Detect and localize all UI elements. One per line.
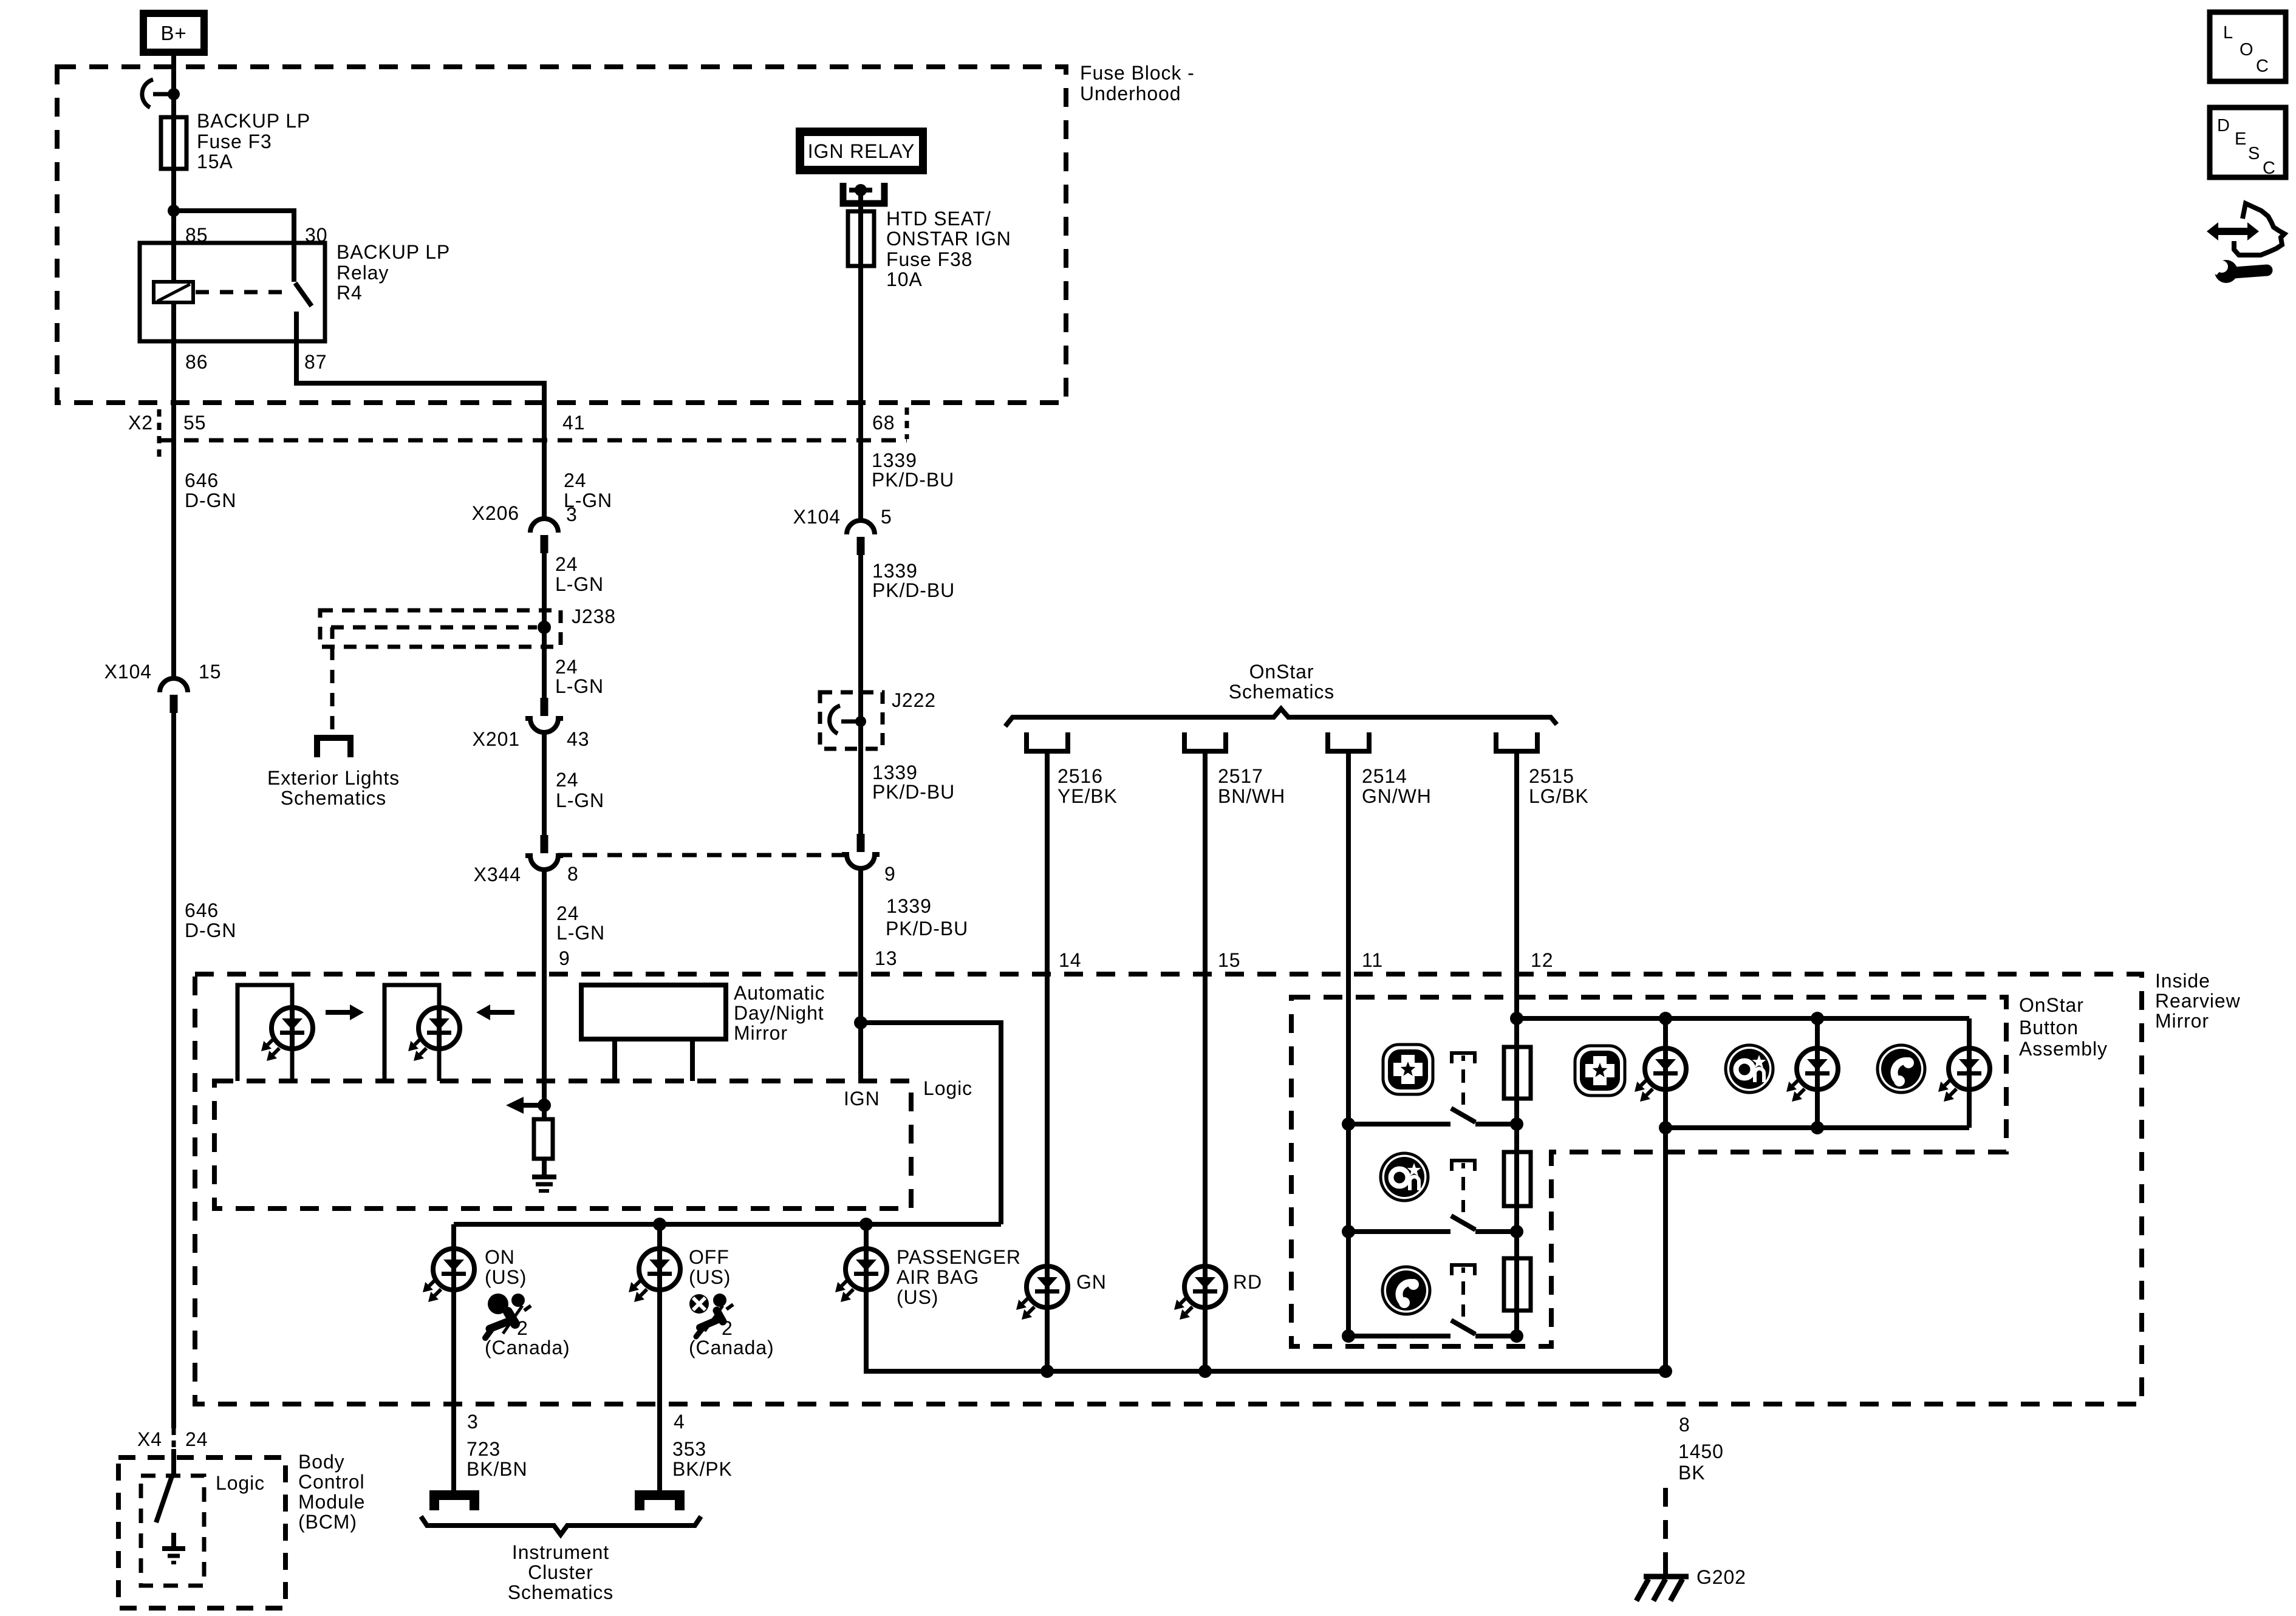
svg-text:GN/WH: GN/WH bbox=[1362, 785, 1432, 807]
wire 13 to IGN junction bbox=[858, 974, 863, 1023]
LED row indicator 3 bbox=[1967, 1018, 1972, 1128]
wire fuse F3 to relay coil 85 bbox=[171, 169, 176, 282]
node dot OFF branch bbox=[653, 1218, 666, 1231]
svg-text:X201: X201 bbox=[473, 728, 520, 750]
svg-text:2: 2 bbox=[517, 1317, 528, 1339]
connector cup cluster 3 bbox=[434, 1495, 474, 1510]
relay socket cup under IGN RELAY bbox=[843, 183, 884, 203]
svg-text:2517: 2517 bbox=[1218, 765, 1263, 787]
svg-text:BK/PK: BK/PK bbox=[672, 1458, 733, 1480]
svg-text:24: 24 bbox=[555, 553, 578, 575]
svg-text:10A: 10A bbox=[886, 268, 923, 290]
wire 2514 GN/WH bbox=[1346, 754, 1351, 1336]
svg-text:L-GN: L-GN bbox=[556, 922, 605, 944]
node dot wire12 top rail bbox=[1510, 1012, 1523, 1025]
connector X206 pin 3 bbox=[530, 519, 558, 533]
svg-text:Schematics: Schematics bbox=[508, 1581, 613, 1603]
svg-text:Automatic: Automatic bbox=[734, 982, 825, 1004]
wire ON LED to cluster pin 3 bbox=[451, 1290, 456, 1493]
connector cup 2516 bbox=[1027, 732, 1068, 751]
power symbol B+ bbox=[140, 10, 208, 56]
LED supply rail bbox=[454, 1222, 1001, 1227]
svg-text:2515: 2515 bbox=[1529, 765, 1574, 787]
ground in logic bbox=[532, 1174, 556, 1179]
button phone in row bbox=[1877, 1045, 1925, 1093]
ground BCM bbox=[162, 1546, 185, 1551]
wire pin 86 down to X2-55 bbox=[171, 341, 176, 678]
dashed box Inside Rearview Mirror bbox=[195, 974, 2142, 1404]
svg-text:15: 15 bbox=[1218, 949, 1240, 971]
LED row indicator 2 bbox=[1815, 1018, 1820, 1128]
day/night mirror legs bbox=[612, 1039, 617, 1081]
svg-text:YE/BK: YE/BK bbox=[1057, 785, 1118, 807]
wire switch row3 bbox=[1348, 1334, 1450, 1338]
svg-text:30: 30 bbox=[305, 224, 327, 246]
node dot bus row2 bbox=[1342, 1225, 1355, 1238]
svg-text:8: 8 bbox=[567, 863, 579, 885]
svg-text:HTD SEAT/: HTD SEAT/ bbox=[886, 208, 991, 230]
resistor R3 wire12 bbox=[1504, 1258, 1531, 1311]
svg-text:Underhood: Underhood bbox=[1080, 83, 1181, 104]
resistor in logic bbox=[542, 1105, 547, 1119]
svg-text:41: 41 bbox=[562, 412, 585, 434]
resistor R2 wire12 bbox=[1504, 1152, 1531, 1206]
switch blade BCM bbox=[156, 1475, 173, 1522]
wire 2515 LG/BK bbox=[1514, 754, 1519, 1336]
svg-text:15A: 15A bbox=[197, 151, 233, 172]
node dot rail LED1 bottom bbox=[1659, 1121, 1672, 1134]
airbag icon OFF Canada crossed bbox=[689, 1294, 709, 1314]
dashed box Body Control Module bbox=[118, 1457, 285, 1608]
LED PASSENGER AIR BAG indicator bbox=[864, 1224, 869, 1249]
svg-text:Assembly: Assembly bbox=[2019, 1038, 2108, 1060]
svg-text:24: 24 bbox=[564, 469, 586, 491]
svg-text:Mirror: Mirror bbox=[2155, 1010, 2209, 1032]
svg-text:X2: X2 bbox=[128, 412, 153, 434]
LED row indicator 1 bbox=[1663, 1018, 1668, 1128]
ground stub BCM bbox=[171, 1533, 176, 1549]
svg-text:Fuse Block -: Fuse Block - bbox=[1080, 62, 1195, 84]
svg-text:BK/BN: BK/BN bbox=[466, 1458, 528, 1480]
brace OnStar Schematics bbox=[1005, 709, 1557, 726]
svg-text:RD: RD bbox=[1233, 1271, 1262, 1293]
node dot GN join bbox=[1040, 1365, 1054, 1378]
svg-text:L-GN: L-GN bbox=[555, 675, 604, 697]
connector row X344 dashed link bbox=[558, 853, 847, 857]
resistor R1 wire12 bbox=[1504, 1047, 1531, 1099]
svg-text:D-GN: D-GN bbox=[185, 919, 236, 941]
svg-text:646: 646 bbox=[185, 899, 219, 921]
wire 1339 into mirror pin 13 bbox=[858, 870, 863, 1081]
svg-text:Schematics: Schematics bbox=[281, 787, 386, 809]
svg-text:8: 8 bbox=[1679, 1414, 1690, 1436]
LED bottom rail bbox=[1666, 1125, 1969, 1130]
wire pin 87 to X2-41 bbox=[296, 341, 544, 520]
wire IGN relay to fuse F38 bbox=[858, 193, 863, 211]
exterior lights connector bracket bbox=[317, 738, 350, 757]
svg-text:Inside: Inside bbox=[2155, 970, 2210, 992]
svg-text:55: 55 bbox=[183, 412, 206, 434]
svg-text:Cluster: Cluster bbox=[528, 1561, 593, 1583]
svg-text:Mirror: Mirror bbox=[734, 1022, 788, 1044]
svg-text:ON: ON bbox=[485, 1246, 515, 1268]
svg-text:Day/Night: Day/Night bbox=[734, 1002, 824, 1024]
node dot at fusible link bbox=[168, 88, 180, 100]
connector cup 2517 bbox=[1184, 732, 1226, 751]
connector X344 pin 9 bbox=[857, 834, 865, 852]
svg-text:2514: 2514 bbox=[1362, 765, 1407, 787]
svg-text:13: 13 bbox=[875, 947, 897, 969]
svg-text:IGN: IGN bbox=[844, 1088, 880, 1110]
svg-text:1339: 1339 bbox=[872, 449, 917, 471]
svg-text:Rearview: Rearview bbox=[2155, 990, 2241, 1012]
wire switch row1 bbox=[1348, 1122, 1450, 1127]
svg-text:D-GN: D-GN bbox=[185, 489, 236, 511]
svg-text:R4: R4 bbox=[337, 282, 363, 304]
wire RD LED to rail bbox=[1203, 1307, 1208, 1371]
node dot IGN branch bbox=[854, 1016, 867, 1029]
svg-text:87: 87 bbox=[304, 351, 327, 373]
svg-text:1339: 1339 bbox=[886, 895, 932, 917]
wire coil to pin 86 bbox=[171, 302, 176, 341]
node dot PASS branch bbox=[859, 1218, 873, 1231]
arrow light out right bbox=[326, 1010, 350, 1015]
wire 646 D-GN down to X4 bbox=[171, 713, 176, 1428]
svg-text:X4: X4 bbox=[137, 1428, 162, 1450]
dashed stub to Exterior Lights bbox=[330, 647, 335, 737]
connector X104 pin 15 bbox=[160, 678, 188, 692]
svg-text:4: 4 bbox=[674, 1411, 685, 1433]
svg-text:(Canada): (Canada) bbox=[689, 1337, 774, 1359]
wire X206 to X201 bbox=[542, 553, 547, 698]
svg-text:BACKUP LP: BACKUP LP bbox=[197, 110, 310, 132]
svg-text:Module: Module bbox=[298, 1491, 365, 1513]
wire resistor to ground bbox=[542, 1159, 547, 1176]
arrow light in left bbox=[476, 1004, 490, 1020]
wire IGN branch to LED rail bbox=[861, 1023, 1001, 1224]
Automatic Day/Night Mirror box bbox=[581, 985, 726, 1039]
wire 1450 BK dashed to ground bbox=[1663, 1488, 1668, 1570]
node dot bus row1 bbox=[1342, 1117, 1355, 1131]
dashed box OnStar Button Assembly bbox=[1291, 997, 2006, 1346]
svg-text:3: 3 bbox=[467, 1411, 479, 1433]
LED top rail bbox=[1517, 1016, 1969, 1021]
LED OFF US indicator bbox=[657, 1224, 662, 1249]
svg-text:86: 86 bbox=[185, 351, 208, 373]
button cross in row bbox=[1575, 1046, 1625, 1096]
svg-text:PK/D-BU: PK/D-BU bbox=[872, 781, 955, 803]
svg-text:Instrument: Instrument bbox=[512, 1541, 609, 1563]
LED GN indicator bbox=[1027, 1266, 1068, 1307]
svg-text:85: 85 bbox=[185, 224, 208, 246]
LED ON US indicator bbox=[451, 1249, 456, 1290]
svg-text:BN/WH: BN/WH bbox=[1218, 785, 1285, 807]
svg-text:Schematics: Schematics bbox=[1229, 681, 1334, 703]
svg-text:(US): (US) bbox=[897, 1286, 938, 1308]
wire 2517 BN/WH bbox=[1203, 754, 1208, 1266]
LED RD indicator bbox=[1184, 1266, 1226, 1307]
terminal tick and dot bbox=[849, 188, 872, 193]
svg-text:(US): (US) bbox=[689, 1266, 731, 1288]
svg-text:PK/D-BU: PK/D-BU bbox=[886, 918, 968, 939]
svg-text:BACKUP LP: BACKUP LP bbox=[337, 241, 450, 263]
connector X104 pin 5 bbox=[847, 520, 875, 534]
svg-text:AIR BAG: AIR BAG bbox=[897, 1266, 979, 1288]
dashed actuation link coil to contact bbox=[196, 290, 290, 295]
splice J238 inner bus bbox=[331, 626, 537, 630]
svg-text:O: O bbox=[2240, 40, 2253, 60]
wire GN LED to rail bbox=[1045, 1307, 1050, 1371]
node dot J238 bbox=[538, 621, 551, 634]
svg-text:X104: X104 bbox=[793, 506, 841, 528]
node dot sensor feed bbox=[538, 1099, 551, 1112]
switch row1 bbox=[1452, 1053, 1475, 1063]
svg-text:L: L bbox=[2223, 23, 2233, 43]
brace Instrument Cluster bbox=[421, 1516, 701, 1535]
wire ground drop from LED rail bbox=[1663, 1128, 1668, 1371]
svg-text:646: 646 bbox=[185, 469, 219, 491]
svg-text:ONSTAR IGN: ONSTAR IGN bbox=[886, 228, 1011, 250]
fusible link hook in J222 bbox=[830, 706, 840, 734]
svg-text:(US): (US) bbox=[485, 1266, 527, 1288]
connector X344 pin 8 bbox=[541, 835, 548, 853]
splice J238 dashed box bbox=[320, 610, 561, 647]
wire switch row2 bbox=[1348, 1229, 1450, 1234]
connector row X2 bbox=[159, 438, 907, 443]
svg-text:68: 68 bbox=[872, 412, 895, 434]
button emergency cross bbox=[1383, 1045, 1433, 1094]
svg-text:14: 14 bbox=[1059, 949, 1081, 971]
svg-text:OFF: OFF bbox=[689, 1246, 729, 1268]
relay contact 87 side bbox=[294, 312, 299, 341]
svg-text:GN: GN bbox=[1076, 1271, 1107, 1293]
photodiode D1 bbox=[272, 1007, 313, 1049]
node dot rail LED1 top bbox=[1659, 1012, 1672, 1025]
svg-text:IGN RELAY: IGN RELAY bbox=[808, 140, 915, 162]
button OnStar logo bbox=[1381, 1153, 1428, 1201]
connector cup 2514 bbox=[1328, 732, 1369, 751]
relay switch blade bbox=[295, 283, 312, 306]
icon wrench bbox=[2215, 260, 2238, 283]
svg-text:Control: Control bbox=[298, 1471, 364, 1493]
switch row2 bbox=[1452, 1161, 1475, 1171]
node dot J222 bbox=[855, 716, 866, 727]
svg-text:12: 12 bbox=[1531, 949, 1553, 971]
svg-text:15: 15 bbox=[199, 661, 221, 683]
svg-text:L-GN: L-GN bbox=[555, 573, 604, 595]
icon box DESC bbox=[2210, 107, 2286, 177]
wire fuse F38 down to X2-68 bbox=[858, 266, 863, 520]
wire X4 into BCM bbox=[171, 1449, 176, 1475]
photodiode D2 bracket bbox=[384, 985, 439, 1081]
svg-text:5: 5 bbox=[881, 506, 892, 528]
svg-text:24: 24 bbox=[556, 902, 579, 924]
svg-text:24: 24 bbox=[556, 769, 578, 791]
svg-text:C: C bbox=[2263, 159, 2276, 178]
svg-text:E: E bbox=[2235, 129, 2247, 149]
svg-text:1339: 1339 bbox=[872, 560, 918, 582]
svg-text:Logic: Logic bbox=[216, 1472, 265, 1494]
svg-text:Logic: Logic bbox=[923, 1077, 972, 1099]
fusible link hook at B+ feed bbox=[142, 80, 153, 107]
button OnStar logo in row bbox=[1726, 1045, 1773, 1093]
node dot bus row3 bbox=[1342, 1329, 1355, 1343]
svg-text:1339: 1339 bbox=[872, 762, 918, 783]
node dot wire12 row2 bbox=[1510, 1225, 1523, 1238]
svg-text:C: C bbox=[2256, 56, 2269, 76]
svg-text:D: D bbox=[2217, 116, 2230, 135]
svg-text:353: 353 bbox=[672, 1438, 706, 1460]
svg-text:B+: B+ bbox=[160, 22, 186, 44]
relay contact 30 side bbox=[292, 243, 296, 282]
dashed box Logic bbox=[214, 1081, 911, 1209]
icon car with arrow bbox=[2234, 203, 2284, 255]
airbag icon ON Canada bbox=[488, 1294, 508, 1314]
svg-text:PK/D-BU: PK/D-BU bbox=[872, 469, 954, 491]
connector cup cluster 4 bbox=[640, 1495, 680, 1510]
node dot rail LED2 top bbox=[1811, 1012, 1824, 1025]
icon box LOC bbox=[2210, 12, 2286, 81]
wire OFF LED to cluster pin 4 bbox=[657, 1290, 662, 1493]
wire 2516 YE/BK bbox=[1045, 754, 1050, 1266]
node dot RD join bbox=[1198, 1365, 1212, 1378]
svg-text:(Canada): (Canada) bbox=[485, 1337, 570, 1359]
svg-text:Fuse F3: Fuse F3 bbox=[197, 131, 272, 152]
button phone bbox=[1382, 1267, 1430, 1314]
wire X104-5 to J222 bbox=[858, 555, 863, 834]
wire branch to relay pin 30 bbox=[174, 211, 294, 243]
svg-text:J238: J238 bbox=[572, 605, 616, 627]
wire B+ to fuse F3 bbox=[171, 56, 176, 119]
dashed box Fuse Block - Underhood bbox=[57, 67, 1066, 403]
svg-text:Fuse F38: Fuse F38 bbox=[886, 248, 972, 270]
svg-text:Body: Body bbox=[298, 1451, 345, 1473]
svg-text:1450: 1450 bbox=[1678, 1440, 1724, 1462]
svg-text:3: 3 bbox=[566, 503, 578, 525]
fuse F3 BACKUP LP 15A bbox=[171, 119, 176, 169]
ground G202 chassis bbox=[1663, 1567, 1668, 1577]
dashed box BCM Logic bbox=[141, 1476, 204, 1586]
arrow into logic bbox=[524, 1103, 542, 1108]
svg-text:J222: J222 bbox=[892, 689, 936, 711]
wire 24 L-GN into mirror pin 9 bbox=[542, 868, 547, 1105]
svg-text:BK: BK bbox=[1678, 1462, 1706, 1484]
wire PASS LED down to ground rail bbox=[866, 1290, 1666, 1371]
connector cup 2515 bbox=[1496, 732, 1537, 751]
svg-text:723: 723 bbox=[466, 1438, 501, 1460]
svg-text:2: 2 bbox=[722, 1317, 733, 1339]
switch row3 bbox=[1452, 1265, 1475, 1275]
svg-text:Relay: Relay bbox=[337, 262, 389, 284]
svg-text:X344: X344 bbox=[474, 864, 521, 885]
svg-text:(BCM): (BCM) bbox=[298, 1511, 357, 1533]
svg-text:PASSENGER: PASSENGER bbox=[897, 1246, 1021, 1268]
svg-text:43: 43 bbox=[567, 728, 589, 750]
svg-text:2516: 2516 bbox=[1057, 765, 1103, 787]
fusible link J222 dashed box bbox=[820, 692, 883, 749]
photodiode D2 bbox=[419, 1007, 460, 1049]
wire X201 to X344 bbox=[542, 731, 547, 835]
svg-text:24: 24 bbox=[555, 656, 578, 678]
svg-text:Button: Button bbox=[2019, 1017, 2079, 1038]
svg-text:LG/BK: LG/BK bbox=[1529, 785, 1589, 807]
connector X4 pin 24 bbox=[172, 1428, 176, 1449]
svg-text:Exterior Lights: Exterior Lights bbox=[267, 767, 400, 789]
photodiode D1 bracket bbox=[237, 985, 292, 1081]
node dot wire12 row1 bbox=[1510, 1117, 1523, 1131]
connector X201 pin 43 bbox=[541, 698, 548, 716]
node dot branch to pin 30 bbox=[168, 205, 180, 217]
power symbol IGN RELAY bbox=[796, 128, 927, 174]
svg-text:9: 9 bbox=[559, 947, 570, 969]
svg-text:X104: X104 bbox=[104, 661, 152, 683]
svg-text:PK/D-BU: PK/D-BU bbox=[872, 579, 955, 601]
relay coil bbox=[154, 282, 193, 302]
node dot wire12 row3 bbox=[1510, 1329, 1523, 1343]
svg-text:24: 24 bbox=[185, 1428, 208, 1450]
node dot rail LED2 bottom bbox=[1811, 1121, 1824, 1134]
svg-text:L-GN: L-GN bbox=[556, 789, 604, 811]
svg-text:OnStar: OnStar bbox=[2019, 994, 2084, 1016]
svg-text:S: S bbox=[2248, 144, 2260, 163]
svg-text:G202: G202 bbox=[1696, 1566, 1746, 1588]
node dot ground rail to G202 bbox=[1659, 1365, 1672, 1378]
relay R4 box BACKUP LP bbox=[140, 243, 325, 341]
svg-text:11: 11 bbox=[1362, 949, 1383, 971]
svg-text:9: 9 bbox=[884, 863, 896, 885]
svg-text:OnStar: OnStar bbox=[1249, 661, 1314, 683]
fuse F38 HTD SEAT/ONSTAR IGN 10A bbox=[858, 211, 863, 266]
svg-text:X206: X206 bbox=[472, 502, 519, 524]
